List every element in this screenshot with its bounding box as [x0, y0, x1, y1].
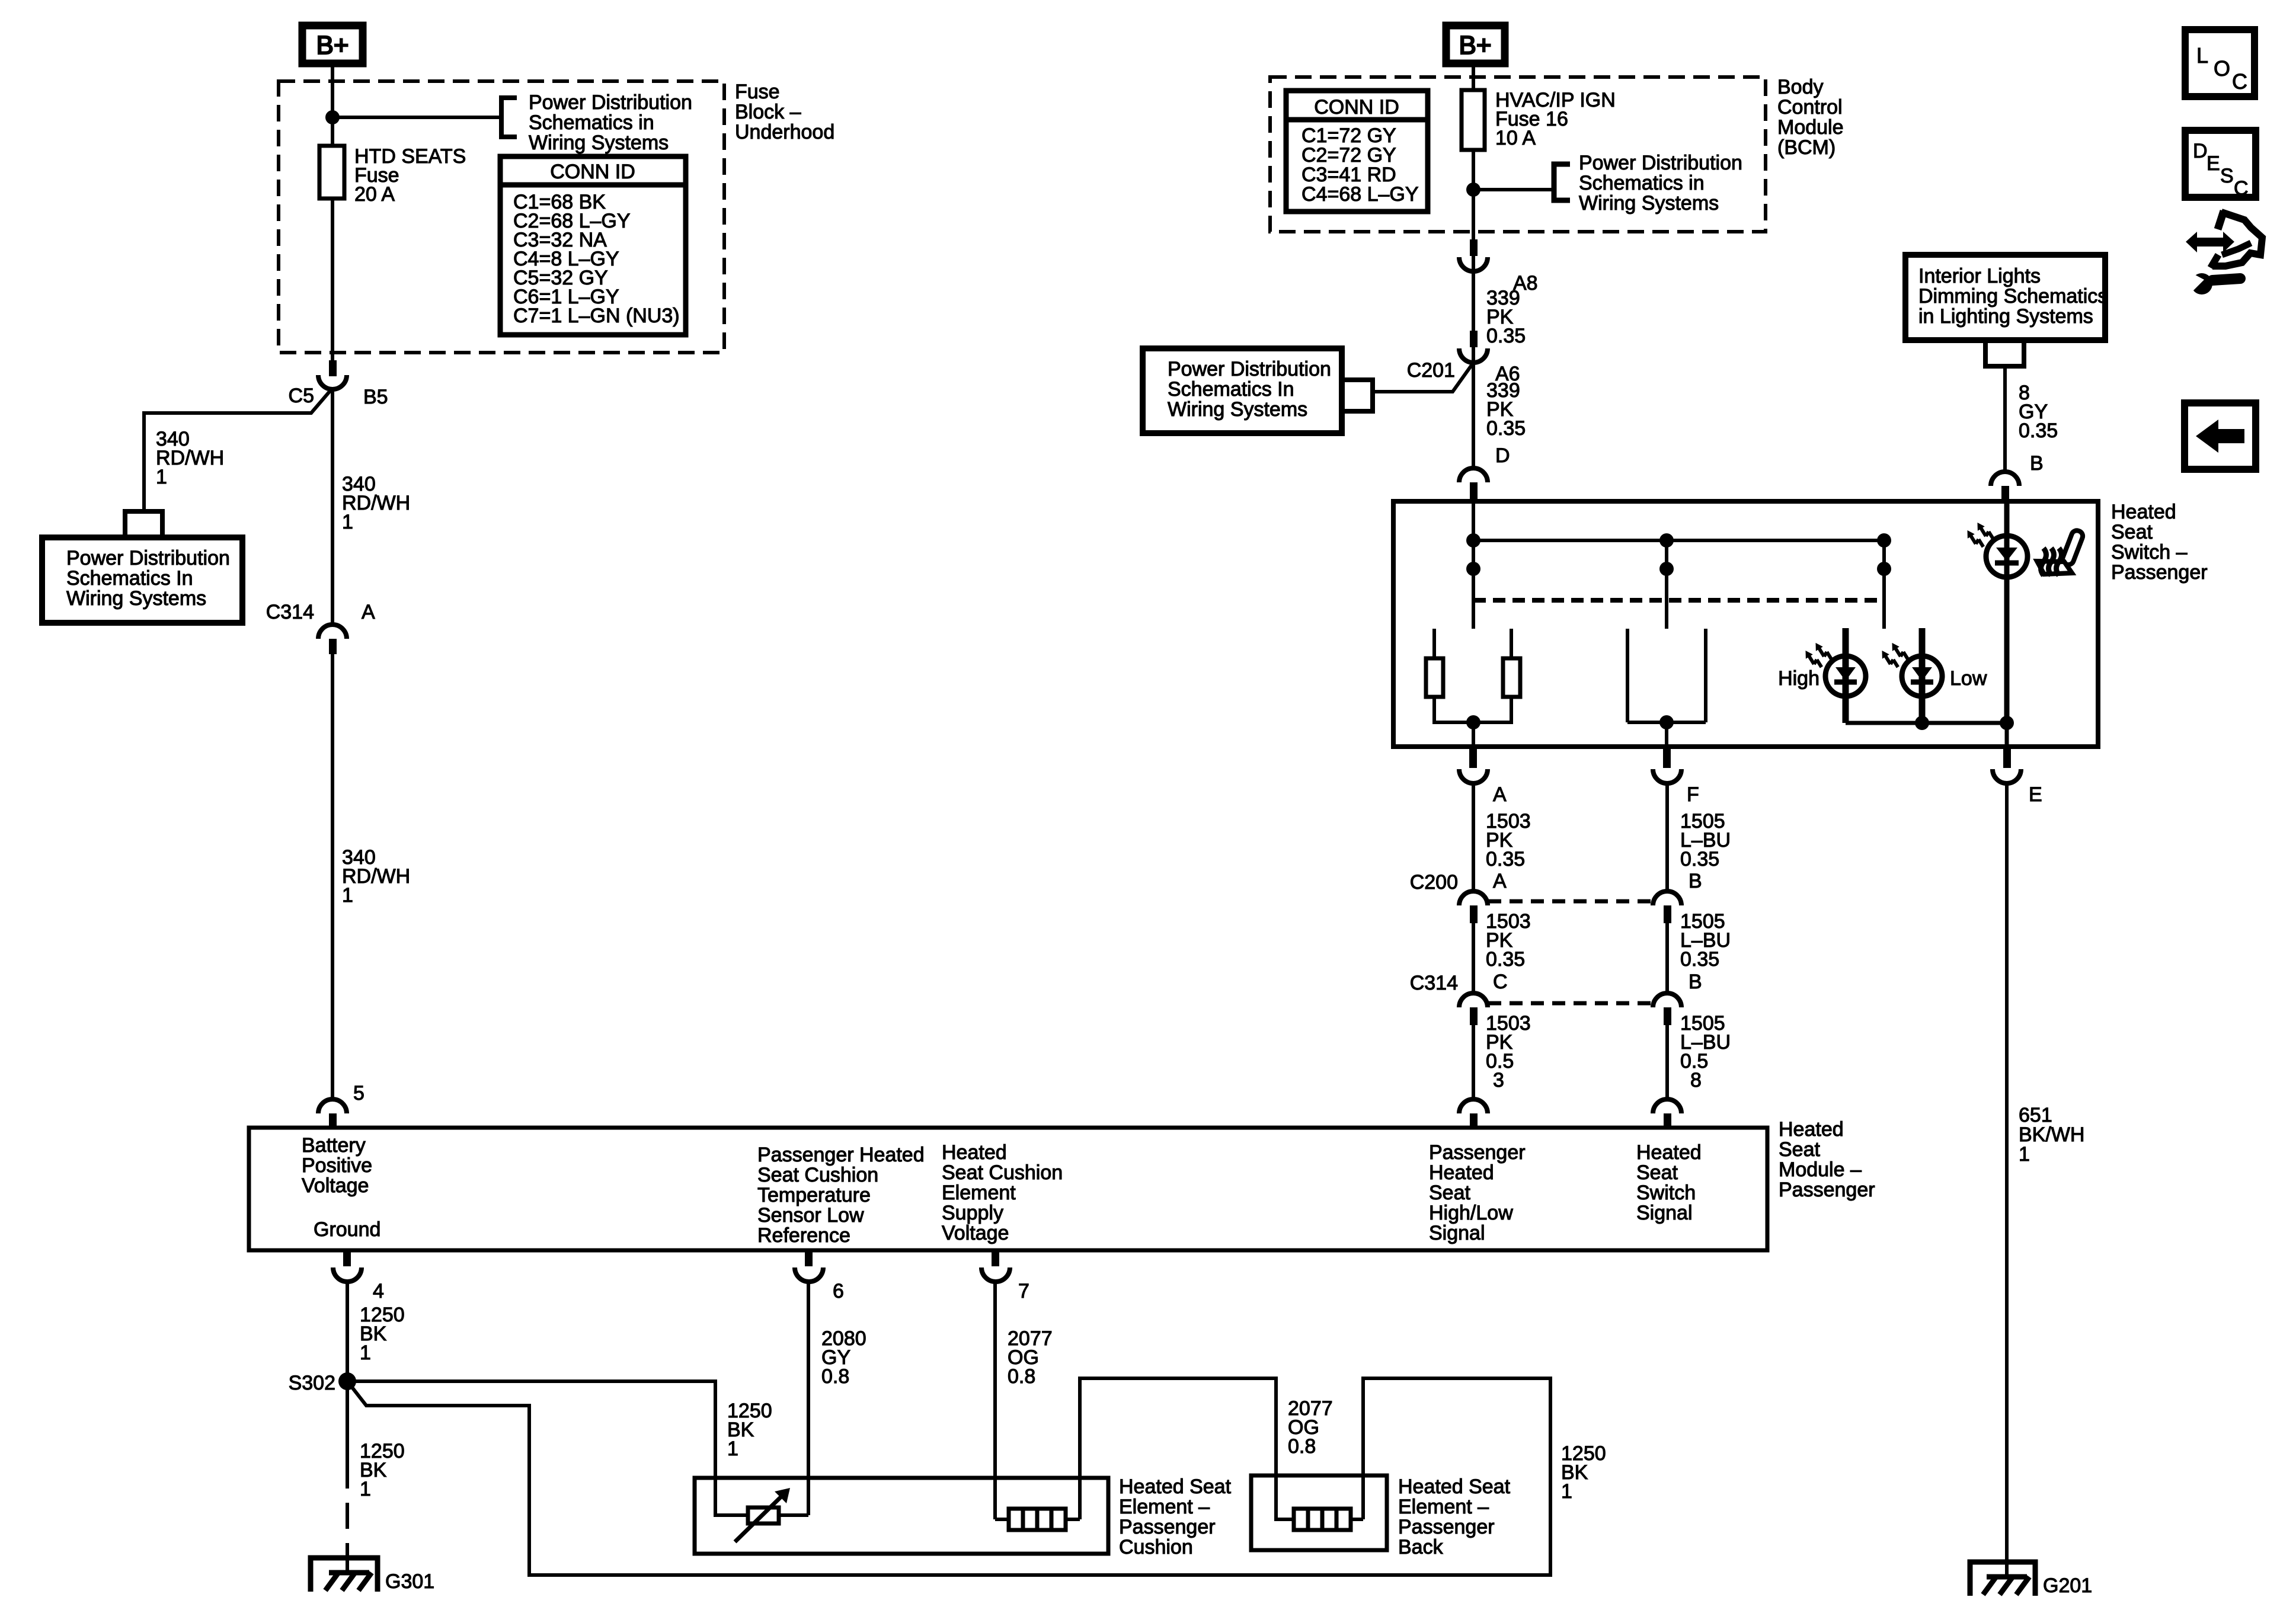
svg-text:C7=1 L–GN (NU3): C7=1 L–GN (NU3)	[513, 305, 680, 327]
label 1250 BK 1 (ground)	[360, 1440, 405, 1500]
wire label 340 RD/WH 1 (branch)	[156, 428, 224, 488]
box heated seat element back	[1251, 1475, 1387, 1550]
node junction at B+ feed	[325, 110, 340, 124]
connector switch pin F	[1653, 747, 1699, 806]
node sec1 output	[1466, 715, 1480, 729]
label 1250 BK 1 (return)	[1561, 1442, 1606, 1503]
label 1503 PK 0.5	[1486, 1012, 1531, 1073]
heating element back	[1294, 1509, 1351, 1530]
svg-text:Passenger: Passenger	[2111, 561, 2208, 584]
wire branch to power distribution	[144, 388, 332, 511]
connector module pin 7	[981, 1250, 1029, 1302]
svg-text:0.35: 0.35	[1486, 417, 1526, 440]
wire pin 4 to S302	[346, 1282, 349, 1381]
connector C201 pin A6	[1407, 331, 1520, 385]
wire sec2 output	[1665, 722, 1668, 747]
resistor R1	[1426, 658, 1443, 697]
linkage C200 dashed	[1488, 900, 1653, 904]
connector C200 pin B	[1653, 870, 1702, 923]
svg-text:3: 3	[1493, 1069, 1504, 1092]
wire junction to bracket	[332, 116, 501, 119]
label HTD SEATS Fuse 20 A	[354, 145, 466, 206]
node pole3 contact	[1877, 562, 1891, 576]
wire sensor to pin 6	[779, 1513, 808, 1517]
wire resistor legs join	[1434, 697, 1511, 722]
svg-text:Signal: Signal	[1636, 1202, 1693, 1224]
wire B entry	[2003, 369, 2007, 472]
svg-text:A: A	[362, 601, 375, 623]
svg-text:Schematics In: Schematics In	[66, 567, 193, 590]
svg-text:Heated Seat: Heated Seat	[1398, 1475, 1511, 1498]
label Passenger Heated Seat High/Low Signal	[1429, 1141, 1526, 1244]
connector switch pin D	[1459, 468, 1488, 501]
label 2077 OG 0.8 (cushion)	[1008, 1327, 1053, 1388]
SWITCH-BOX-END	[1410, 747, 2092, 1597]
svg-text:C314: C314	[266, 601, 314, 623]
label Body Control Module (BCM)	[1777, 76, 1844, 159]
svg-text:Heated: Heated	[1779, 1118, 1844, 1141]
label 2077 OG 0.8 (back)	[1288, 1397, 1333, 1458]
svg-text:Passenger: Passenger	[1429, 1141, 1526, 1164]
bracket pointer (power distribution, BCM)	[1554, 164, 1570, 200]
connector switch pin B	[1991, 472, 2019, 501]
svg-text:B+: B+	[316, 31, 348, 60]
svg-text:Element: Element	[942, 1182, 1016, 1204]
svg-text:O: O	[2214, 56, 2230, 81]
svg-text:Voltage: Voltage	[302, 1174, 369, 1197]
box heated seat element cushion	[695, 1478, 1108, 1554]
linkage C314 dashed	[1488, 1001, 1653, 1006]
wire switch pole 3	[1882, 540, 1886, 629]
splice S302	[289, 1372, 356, 1394]
wire C5 down to C314	[331, 389, 334, 625]
wire indicator LED branch	[2004, 501, 2010, 723]
LED High	[1825, 656, 1866, 696]
svg-text:in Lighting Systems: in Lighting Systems	[1918, 305, 2093, 328]
svg-text:Heated: Heated	[1429, 1161, 1494, 1184]
svg-text:Seat: Seat	[1429, 1182, 1470, 1204]
bracket pointer (interior lights)	[1985, 340, 2024, 366]
box Interior Lights Dimming	[1905, 255, 2108, 340]
svg-text:C: C	[2232, 69, 2247, 94]
svg-text:0.8: 0.8	[1008, 1365, 1035, 1388]
wire junction to bracket (BCM)	[1473, 188, 1554, 191]
svg-text:Seat: Seat	[1636, 1161, 1678, 1184]
svg-text:0.35: 0.35	[1680, 848, 1719, 870]
bracket pointer (power distribution, fuse block)	[501, 98, 517, 137]
svg-text:4: 4	[373, 1280, 384, 1302]
connector switch pin E	[1993, 747, 2042, 806]
label 8 GY 0.35	[2019, 382, 2058, 442]
svg-text:Passenger: Passenger	[1119, 1516, 1216, 1538]
lightning arrows High	[1812, 641, 1832, 664]
svg-text:Underhood: Underhood	[735, 121, 834, 143]
wire pin 7 to cushion element	[993, 1282, 997, 1519]
svg-text:Seat Cushion: Seat Cushion	[942, 1161, 1063, 1184]
wire switch feed bus	[1473, 539, 1884, 542]
label 1505 L-BU 0.35 (2)	[1680, 910, 1731, 971]
svg-text:B5: B5	[363, 386, 388, 408]
wire indicator cathode to bus	[2005, 723, 2009, 747]
svg-text:1: 1	[342, 884, 353, 907]
svg-text:6: 6	[833, 1280, 844, 1302]
svg-text:E: E	[2207, 152, 2220, 175]
label 1250 BK 1 (sensor branch)	[727, 1400, 772, 1460]
svg-text:B: B	[2030, 452, 2044, 475]
svg-text:CONN ID: CONN ID	[550, 161, 635, 183]
bracket pointer (power distribution mid)	[1342, 380, 1373, 411]
svg-text:0.8: 0.8	[821, 1365, 849, 1388]
MID-CHAIN-END	[1393, 255, 2208, 747]
svg-text:Positive: Positive	[302, 1154, 372, 1177]
svg-text:Reference: Reference	[757, 1224, 850, 1247]
label Heated Seat Switch - Passenger	[2111, 501, 2208, 584]
label 651 BK/WH 1	[2019, 1104, 2084, 1166]
svg-text:Wiring Systems: Wiring Systems	[66, 587, 206, 610]
BCM dashed box	[1270, 77, 1766, 232]
svg-text:L: L	[2196, 43, 2208, 68]
wire label 339 PK 0.35 (upper)	[1486, 287, 1526, 347]
LED Low	[1902, 656, 1942, 696]
lightning arrows indicator	[1974, 520, 1994, 544]
thermistor cushion temp sensor	[735, 1488, 790, 1542]
svg-text:Fuse: Fuse	[735, 81, 780, 103]
connector table CONN ID (fuse block)	[500, 156, 686, 335]
svg-text:A: A	[1493, 783, 1507, 806]
svg-text:8: 8	[1690, 1069, 1702, 1092]
label 1505 L-BU 0.5	[1680, 1012, 1731, 1073]
box Power Distribution Schematics In Wiring Systems (left)	[42, 537, 242, 623]
svg-text:S: S	[2220, 165, 2234, 187]
svg-text:C201: C201	[1407, 359, 1455, 382]
svg-text:Passenger: Passenger	[1398, 1516, 1495, 1538]
fuse block underhood dashed box	[279, 81, 724, 353]
wire S302 branch to cushion sensor	[347, 1381, 748, 1515]
label Heated Seat Switch Signal	[1636, 1141, 1702, 1224]
svg-text:1: 1	[360, 1478, 371, 1500]
svg-text:Body: Body	[1777, 76, 1824, 98]
resistor R2	[1503, 658, 1520, 697]
wire contact 1b	[1510, 629, 1513, 658]
wire C201 to D	[1472, 363, 1475, 468]
wire cushion element leads	[995, 1518, 1080, 1521]
wire label 340 RD/WH 1 (main upper)	[342, 473, 410, 533]
svg-text:Interior Lights: Interior Lights	[1918, 265, 2041, 287]
svg-text:Schematics In: Schematics In	[1168, 378, 1294, 401]
svg-text:Wiring Systems: Wiring Systems	[1168, 398, 1307, 421]
svg-text:Supply: Supply	[942, 1202, 1003, 1224]
wire label 339 PK 0.35 (lower)	[1486, 379, 1526, 440]
svg-text:Module: Module	[1777, 116, 1844, 139]
svg-text:1: 1	[1561, 1480, 1572, 1503]
connector C5/B5	[289, 360, 388, 408]
wire C200B to C314B	[1665, 923, 1669, 993]
svg-text:D: D	[1495, 444, 1510, 467]
svg-text:Wiring Systems: Wiring Systems	[1579, 192, 1719, 215]
svg-text:Dimming Schematics: Dimming Schematics	[1918, 285, 2108, 308]
wire label 340 RD/WH 1 (main lower)	[342, 846, 410, 907]
wire B+ to fuse block	[331, 67, 334, 146]
svg-text:Battery: Battery	[302, 1134, 366, 1157]
connector module pin 8	[1653, 1099, 1681, 1128]
svg-text:0.35: 0.35	[1486, 848, 1525, 870]
icon heated seat	[2037, 529, 2084, 575]
MODULE-BOX-END	[289, 1250, 1606, 1593]
label Fuse Block Underhood	[735, 81, 834, 143]
label HVAC/IP IGN Fuse 16 10 A	[1495, 89, 1616, 149]
label 1503 PK 0.35 (2)	[1486, 910, 1531, 971]
box Power Distribution Schematics In Wiring Systems (mid)	[1143, 348, 1342, 433]
wire switch pole 2	[1665, 540, 1668, 629]
svg-text:S302: S302	[289, 1372, 335, 1394]
wire S302 to G301	[346, 1381, 349, 1489]
svg-text:High: High	[1778, 667, 1819, 690]
battery feed B+ (BCM)	[1446, 25, 1505, 63]
svg-text:1: 1	[156, 466, 167, 488]
svg-text:5: 5	[353, 1082, 364, 1105]
svg-text:High/Low: High/Low	[1429, 1202, 1513, 1224]
wire sec2 join	[1627, 721, 1706, 724]
svg-text:Heated: Heated	[1636, 1141, 1702, 1164]
node pole1 contact	[1466, 562, 1480, 576]
wire B+ to fuse 16	[1472, 67, 1475, 90]
svg-text:Module –: Module –	[1779, 1158, 1862, 1181]
OUTPUT-CHAINS-END	[249, 1118, 1875, 1250]
fuse F16 HVAC/IP IGN 10A	[1462, 90, 1485, 150]
svg-text:G201: G201	[2043, 1574, 2092, 1597]
svg-text:Element –: Element –	[1398, 1496, 1489, 1518]
wire LED cathode bus	[1846, 721, 2007, 725]
svg-text:0.35: 0.35	[1486, 325, 1526, 347]
svg-text:10 A: 10 A	[1495, 127, 1536, 149]
wire cushion element to back element	[1080, 1378, 1294, 1519]
wire F to C200	[1665, 783, 1669, 891]
connector C314 pin B	[1653, 971, 1702, 1025]
svg-text:D: D	[2193, 140, 2208, 162]
node pole2 contact	[1659, 562, 1674, 576]
svg-text:Signal: Signal	[1429, 1222, 1485, 1244]
BOTTOM-AREA-END	[2185, 30, 2262, 469]
svg-text:C5: C5	[289, 385, 314, 407]
svg-text:Cushion: Cushion	[1119, 1536, 1193, 1558]
label Passenger Heated Seat Cushion Temperature Sensor Low Reference	[757, 1144, 925, 1247]
heated seat module passenger box	[249, 1128, 1767, 1250]
wire contact 2a	[1626, 629, 1629, 722]
label Heated Seat Module - Passenger	[1779, 1118, 1875, 1201]
svg-text:Element –: Element –	[1119, 1496, 1210, 1518]
svg-text:1: 1	[2019, 1143, 2030, 1166]
label Power Distribution Schematics in Wiring Systems (BCM)	[1579, 152, 1742, 215]
label 1505 L-BU 0.35 (1)	[1680, 810, 1731, 870]
label Heated Seat Element - Passenger Cushion	[1119, 1475, 1232, 1558]
svg-text:1: 1	[360, 1342, 371, 1364]
icon interactive hotspot (arrow and wrench)	[2186, 211, 2262, 295]
connector A8	[1459, 239, 1538, 295]
connector module pin 5	[318, 1099, 347, 1128]
wire back element right lead	[1351, 1518, 1363, 1521]
LEFT-CHAIN-END	[1143, 25, 1844, 501]
wire fuse 16 down	[1472, 150, 1475, 361]
svg-text:Back: Back	[1398, 1536, 1444, 1558]
svg-text:0.35: 0.35	[1680, 948, 1719, 971]
label Heated Seat Element - Passenger Back	[1398, 1475, 1511, 1558]
svg-text:Temperature: Temperature	[757, 1184, 871, 1206]
label Heated Seat Cushion Element Supply Voltage	[942, 1141, 1063, 1244]
svg-text:Voltage: Voltage	[942, 1222, 1009, 1244]
svg-text:B: B	[1689, 870, 1702, 892]
wire pin 6 to sensor	[807, 1282, 810, 1515]
svg-text:Seat: Seat	[2111, 521, 2153, 543]
label 1503 PK 0.35 (1)	[1486, 810, 1531, 870]
wire C314 to module pin 3	[1472, 1025, 1475, 1099]
svg-text:Seat Cushion: Seat Cushion	[757, 1164, 878, 1186]
svg-text:A: A	[1493, 870, 1507, 892]
node bus to E	[2000, 716, 2014, 730]
svg-text:Heated: Heated	[2111, 501, 2176, 523]
connector table CONN ID (BCM)	[1286, 91, 1428, 212]
svg-text:Sensor Low: Sensor Low	[757, 1204, 864, 1227]
ground G201	[1970, 1562, 2092, 1597]
svg-text:C: C	[2234, 177, 2249, 200]
svg-text:7: 7	[1018, 1280, 1029, 1302]
wire C200 to C314	[1472, 923, 1475, 993]
wire contact 1a	[1432, 629, 1436, 658]
wire fuse to C5	[331, 199, 334, 361]
label 2080 GY 0.8	[821, 1327, 866, 1388]
ground G301	[311, 1558, 434, 1593]
svg-text:Ground: Ground	[314, 1218, 380, 1241]
wire S302 branch to elements return	[347, 1378, 1550, 1575]
svg-text:B: B	[1689, 971, 1702, 993]
connector module pin 6	[795, 1250, 844, 1302]
svg-text:E: E	[2029, 783, 2042, 806]
connector C314 pin C	[1410, 971, 1508, 1025]
svg-text:0.35: 0.35	[1486, 948, 1525, 971]
wire E to G201	[2005, 783, 2009, 1576]
svg-text:Switch –: Switch –	[2111, 541, 2188, 564]
svg-text:Low: Low	[1950, 667, 1987, 690]
bracket pointer (power distribution left)	[125, 511, 162, 539]
icon LOC box	[2185, 30, 2255, 97]
svg-text:(BCM): (BCM)	[1777, 136, 1835, 159]
svg-text:1: 1	[727, 1438, 738, 1460]
wire High LED lead	[1843, 628, 1849, 723]
node sec2 output	[1659, 715, 1674, 729]
node feed pole3	[1877, 533, 1891, 548]
svg-text:1: 1	[342, 511, 353, 533]
wire C314B to module pin 8	[1665, 1025, 1669, 1099]
node junction below fuse 16	[1466, 183, 1480, 197]
svg-text:Passenger: Passenger	[1779, 1179, 1875, 1201]
svg-text:Power Distribution: Power Distribution	[1579, 152, 1742, 174]
svg-text:Control: Control	[1777, 96, 1843, 119]
wire C314 to module pin 5	[331, 654, 334, 1099]
label Power Distribution Schematics in Wiring Systems (fuse block)	[529, 91, 692, 154]
svg-text:C: C	[1493, 971, 1508, 993]
svg-text:Heated Seat: Heated Seat	[1119, 1475, 1232, 1498]
svg-text:G301: G301	[385, 1570, 434, 1593]
icon back arrow box	[2185, 403, 2256, 469]
connector C314 pin A (left)	[266, 601, 375, 654]
node feed pole2	[1659, 533, 1674, 548]
svg-text:0.8: 0.8	[1288, 1435, 1316, 1458]
wire sec1 output	[1472, 722, 1475, 747]
node feed pole1	[1466, 533, 1480, 548]
svg-text:Wiring Systems: Wiring Systems	[529, 132, 669, 154]
svg-text:Passenger Heated: Passenger Heated	[757, 1144, 925, 1166]
svg-text:B+: B+	[1459, 31, 1491, 60]
connector C200 pin A	[1410, 870, 1507, 923]
fuse F1 HTD SEATS 20A	[319, 146, 344, 199]
wire A to C200	[1472, 783, 1475, 891]
heating element cushion	[1009, 1509, 1066, 1530]
battery feed B+ (left)	[302, 25, 363, 63]
svg-text:Schematics in: Schematics in	[529, 111, 654, 134]
svg-text:CONN ID: CONN ID	[1314, 96, 1399, 119]
svg-text:Heated: Heated	[942, 1141, 1007, 1164]
lightning arrows Low	[1889, 641, 1908, 664]
wire switch feed pole 1	[1472, 501, 1475, 629]
connector module pin 3	[1459, 1099, 1488, 1128]
connector switch pin A	[1459, 747, 1507, 806]
svg-text:Schematics in: Schematics in	[1579, 172, 1705, 194]
connector module pin 4	[333, 1250, 384, 1302]
svg-text:Seat: Seat	[1779, 1138, 1820, 1161]
svg-text:Switch: Switch	[1636, 1182, 1696, 1204]
svg-text:Power Distribution: Power Distribution	[1168, 358, 1331, 380]
svg-text:C314: C314	[1410, 972, 1458, 994]
svg-text:Power Distribution: Power Distribution	[529, 91, 692, 114]
switch linkage dashed	[1473, 598, 1884, 603]
wire Low LED lead	[1919, 628, 1926, 723]
heated seat switch passenger box	[1393, 501, 2098, 747]
svg-text:C200: C200	[1410, 871, 1458, 894]
svg-text:0.35: 0.35	[2019, 420, 2058, 442]
svg-text:Power Distribution: Power Distribution	[66, 547, 230, 569]
svg-text:C4=68 L–GY: C4=68 L–GY	[1302, 183, 1419, 206]
svg-text:Block –: Block –	[735, 101, 801, 123]
label Battery Positive Voltage	[302, 1134, 372, 1197]
wire contact 2b	[1704, 629, 1707, 722]
svg-text:20 A: 20 A	[354, 183, 395, 206]
wire branch C201 to power distribution box	[1373, 363, 1473, 392]
label 1250 BK 1 (pin4)	[360, 1304, 405, 1364]
icon DESC box	[2185, 130, 2256, 200]
svg-text:F: F	[1687, 783, 1699, 806]
LED indicator	[1986, 536, 2028, 577]
node Low cathode	[1915, 716, 1929, 730]
